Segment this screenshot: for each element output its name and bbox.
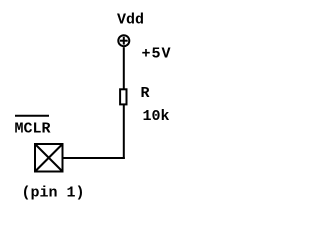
svg-text:MCLR: MCLR (15, 121, 51, 138)
MCLR overline (15, 115, 49, 117)
svg-text:Vdd: Vdd (117, 11, 144, 28)
wire from resistor down (123, 104, 125, 159)
svg-text:(pin 1): (pin 1) (22, 185, 85, 202)
power supply symbol (circle with plus) (118, 35, 129, 46)
svg-text:+5V: +5V (142, 46, 172, 63)
pin symbol (box with X) (35, 144, 63, 172)
svg-text:10k: 10k (143, 108, 170, 125)
svg-text:R: R (141, 85, 150, 102)
wire horizontal to MCLR pin (62, 157, 125, 159)
wire from supply to resistor (123, 47, 125, 89)
resistor R (120, 89, 126, 104)
